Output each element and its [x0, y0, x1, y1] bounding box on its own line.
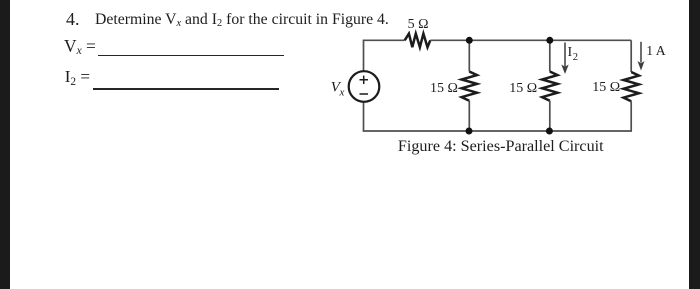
wire branch2 bottom stub: [549, 101, 551, 131]
svg-text:15 Ω: 15 Ω: [430, 81, 458, 96]
svg-text:1 A: 1 A: [646, 43, 666, 58]
wire right rail top: [630, 40, 632, 72]
resistor R2 15 ohm (branch 1): [462, 72, 477, 101]
figure caption: [398, 139, 604, 155]
current arrow I2: [561, 43, 568, 75]
wire branch1 bottom stub: [468, 101, 470, 131]
node dot bottom branch1: [466, 128, 473, 135]
resistor R3 15 ohm (branch 2): [542, 72, 557, 101]
wire left rail bottom (source to bottom rail): [363, 103, 365, 132]
resistor R1 5 ohm: [405, 34, 431, 48]
label Vx: [331, 80, 345, 99]
resistor R4 15 ohm (branch 3): [624, 72, 639, 101]
wire right rail bottom: [630, 101, 632, 131]
svg-text:2: 2: [573, 52, 578, 63]
voltage source Vx: [349, 71, 380, 102]
svg-text:15 Ω: 15 Ω: [592, 80, 620, 95]
wire branch1 top stub: [468, 40, 470, 71]
wire left rail top (source to top rail): [363, 40, 365, 70]
answer blank 1: [98, 55, 284, 56]
svg-text:x: x: [339, 86, 345, 98]
node dot top branch2: [546, 37, 553, 44]
wire branch2 top stub: [549, 40, 551, 71]
label I2: [568, 45, 578, 63]
right black sidebar: [689, 0, 700, 289]
answer line I2 =: [65, 68, 90, 85]
problem number 4.: [66, 10, 80, 28]
node dot bottom branch2: [546, 128, 553, 135]
left black sidebar: [0, 0, 10, 289]
current arrow 1 A: [638, 42, 645, 71]
svg-text:5 Ω: 5 Ω: [408, 17, 429, 32]
problem statement: [95, 12, 389, 28]
answer line Vx =: [64, 38, 96, 55]
answer blank 2: [93, 88, 279, 89]
wire top rail left: [363, 39, 405, 41]
wire top rail right: [430, 39, 631, 41]
node dot top branch1: [466, 37, 473, 44]
svg-text:15 Ω: 15 Ω: [509, 81, 537, 96]
wire bottom rail: [363, 130, 632, 132]
